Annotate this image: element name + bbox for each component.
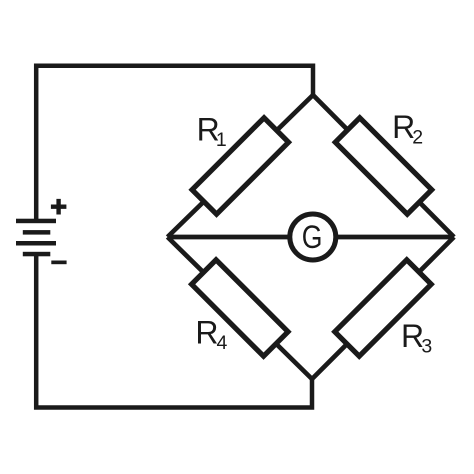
wire: top-left loop (battery top to bridge top node) bbox=[36, 66, 313, 220]
wire: bridge edge left-bottom (node L to node B) bbox=[168, 237, 313, 379]
battery BT1 plate short bottom (-) bbox=[23, 252, 51, 256]
wire: galvanometer branch (node L to node R) bbox=[168, 235, 455, 240]
battery plus sign bbox=[51, 199, 67, 215]
svg-text:4: 4 bbox=[217, 332, 228, 354]
galvanometer U1 circle bbox=[290, 214, 336, 260]
battery minus sign bbox=[51, 261, 66, 265]
svg-text:2: 2 bbox=[412, 127, 423, 149]
resistor R3 bbox=[335, 260, 431, 356]
svg-text:3: 3 bbox=[421, 335, 432, 357]
wire: bridge edge top-right (node T to node R) bbox=[313, 95, 454, 237]
battery BT1 plate long bbox=[16, 241, 56, 246]
resistor R2 bbox=[335, 118, 431, 214]
resistor R1 bbox=[192, 118, 288, 214]
wire: bridge edge bottom-right (node B to node R) bbox=[312, 237, 454, 379]
resistor R4 bbox=[192, 260, 288, 356]
svg-text:G: G bbox=[302, 219, 323, 255]
battery BT1 plate short bbox=[23, 230, 51, 235]
wire: bottom-left loop (battery bottom to bridge bottom node) bbox=[36, 254, 312, 408]
battery BT1 plate long top (+) bbox=[16, 219, 56, 224]
svg-text:R: R bbox=[195, 315, 218, 351]
wire: bridge edge left-top (node L to node T) bbox=[168, 95, 314, 237]
svg-text:1: 1 bbox=[216, 129, 227, 151]
